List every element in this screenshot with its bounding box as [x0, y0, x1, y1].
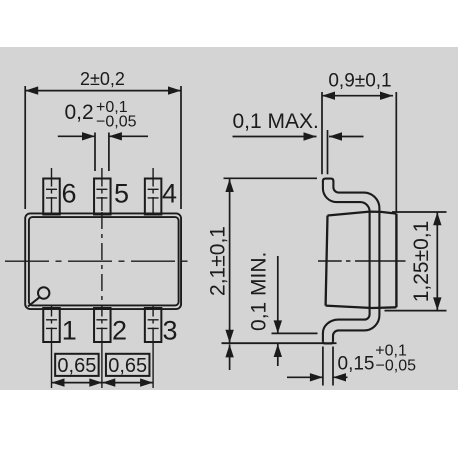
vertical centerline pin5/pin2 column — [101, 168, 103, 388]
dim 0,15 line — [287, 376, 348, 378]
dim 1,25 line — [436, 212, 438, 311]
extra arrow tail below seating — [229, 344, 231, 370]
arrows 0,2 — [82, 132, 95, 140]
horizontal centerline — [5, 260, 188, 262]
dim 0,15 extensions — [323, 347, 333, 386]
pin 1 indicator leader — [28, 297, 40, 306]
arrows 2,1 — [225, 179, 233, 192]
dim 0,9 extension lines — [322, 92, 396, 212]
arrows 0,65 — [52, 378, 65, 386]
0,65 dimension arrows line — [52, 382, 154, 384]
pin 3 center marks — [148, 305, 159, 388]
dim 0,1 MAX lines — [327, 130, 329, 174]
pin 5 center marks — [96, 189, 107, 198]
arrows 0,1 MIN — [274, 320, 282, 333]
svg-text:0,1 MAX.: 0,1 MAX. — [233, 110, 319, 133]
dim 1,25 extensions — [385, 212, 447, 311]
arrows 0,9 — [322, 92, 335, 100]
pin 2 — [94, 308, 111, 342]
svg-text:2,1±0,1: 2,1±0,1 — [206, 226, 229, 296]
svg-text:1,25±0,1: 1,25±0,1 — [410, 221, 433, 303]
svg-text:0,65: 0,65 — [108, 355, 147, 377]
arrows 2±0,2 — [25, 86, 38, 94]
side body — [326, 212, 397, 308]
lead foot cap — [323, 341, 333, 343]
dim 0,1 MIN line — [277, 256, 279, 366]
arrows 1,25 — [433, 212, 441, 225]
dimension 2±0,2 extension lines — [25, 86, 181, 209]
svg-text:4: 4 — [162, 178, 177, 208]
svg-text:0,9±0,1: 0,9±0,1 — [328, 71, 391, 92]
pin 5 — [94, 179, 111, 215]
svg-text:0,15: 0,15 — [338, 353, 375, 374]
side view centerline — [318, 260, 406, 262]
svg-text:5: 5 — [114, 178, 129, 208]
lead inner boundary — [333, 181, 379, 342]
0,65 dimension boxes — [55, 354, 99, 376]
pin 6 center marks — [46, 168, 57, 216]
pin 1 — [43, 308, 60, 342]
dimension 2±0,2 line — [25, 90, 181, 92]
package body — [25, 213, 181, 309]
dim 0,9 line — [322, 95, 393, 97]
svg-text:1: 1 — [62, 315, 77, 345]
pin 6 — [43, 179, 60, 215]
dim 2,1 top extension — [224, 177, 318, 179]
lead tip cap — [323, 179, 334, 182]
lead outer boundary — [323, 181, 370, 342]
pin 3 — [145, 308, 162, 342]
seating plane line — [222, 342, 337, 344]
pin 1 indicator circle — [38, 287, 49, 298]
pin 1 center marks — [46, 305, 57, 388]
svg-text:2: 2 — [112, 315, 127, 345]
svg-text:3: 3 — [163, 315, 178, 345]
svg-text:6: 6 — [62, 178, 77, 208]
svg-text:0,2: 0,2 — [65, 101, 94, 124]
svg-text:−0,05: −0,05 — [376, 358, 417, 375]
pin 2 center marks — [96, 320, 107, 329]
dim 0,1 MIN extension — [272, 332, 318, 334]
dimension 0,2 lines — [95, 133, 109, 172]
pin 4 center marks — [148, 168, 159, 216]
svg-text:−0,05: −0,05 — [96, 113, 137, 130]
svg-text:0,1 MIN.: 0,1 MIN. — [248, 252, 271, 331]
svg-text:0,65: 0,65 — [57, 355, 96, 377]
dim 2,1 line — [229, 179, 231, 344]
arrows 0,15 — [310, 373, 323, 381]
pin 4 — [145, 179, 162, 215]
arrows 0,1 MAX — [304, 132, 317, 140]
svg-text:2±0,2: 2±0,2 — [80, 69, 125, 89]
